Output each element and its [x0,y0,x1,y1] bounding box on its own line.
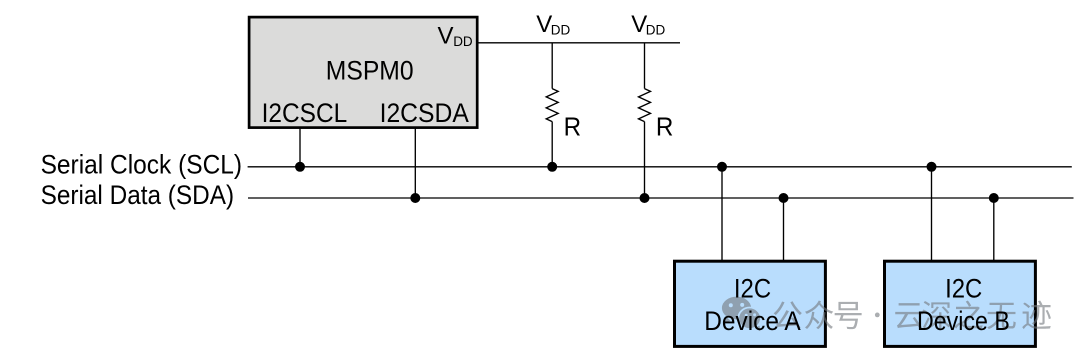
svg-text:MSPM0: MSPM0 [326,56,414,86]
wire: I2CSDA pin to SDA bus [414,128,416,198]
wire: VDD rail from MSPM0 to right [478,42,680,44]
junction: I2CSDA to SDA [410,193,420,203]
svg-text:I2CSCL: I2CSCL [262,98,348,128]
svg-text:V: V [438,22,454,49]
wire: I2CSCL pin to SCL bus [299,128,301,167]
resistor R2 (pull-up on SDA) [639,43,651,198]
svg-text:DD: DD [646,23,666,38]
svg-text:DD: DD [551,23,571,38]
watermark: WeChat icon + text [722,297,1051,332]
wire: Device B SDA pin [993,198,995,261]
resistor R1 (pull-up on SCL) [546,43,558,167]
svg-text:Device A: Device A [704,306,800,336]
junction: Device B SDA [989,193,999,203]
wire: Device A SCL pin [721,167,723,261]
wire: Device A SDA pin [783,198,785,261]
junction: Device B SCL [927,162,937,172]
junction: Device A SDA [779,193,789,203]
junction: I2CSCL to SCL [295,162,305,172]
wire: Device B SCL pin [931,167,933,261]
svg-text:I2CSDA: I2CSDA [380,98,469,128]
junction: R2 to SDA [640,193,650,203]
device U3: I2C Device B box [885,261,1036,346]
svg-text:DD: DD [453,34,473,49]
junction: Device A SCL [717,162,727,172]
wire: SCL bus horizontal [248,166,1072,168]
svg-text:Device B: Device B [917,306,1010,336]
device U2: I2C Device A box [675,261,826,346]
MCU U1: MSPM0 box [249,17,477,128]
wire: SDA bus horizontal [248,197,1074,199]
svg-text:Serial Clock (SCL): Serial Clock (SCL) [41,150,243,180]
svg-text:R: R [656,111,674,141]
watermark text: 公众号·云深之无迹 [774,301,802,329]
svg-text:Serial Data (SDA): Serial Data (SDA) [41,180,235,210]
svg-text:I2C: I2C [734,274,771,304]
svg-text:I2C: I2C [945,274,982,304]
svg-text:R: R [564,111,582,141]
junction: R1 to SCL [547,162,557,172]
